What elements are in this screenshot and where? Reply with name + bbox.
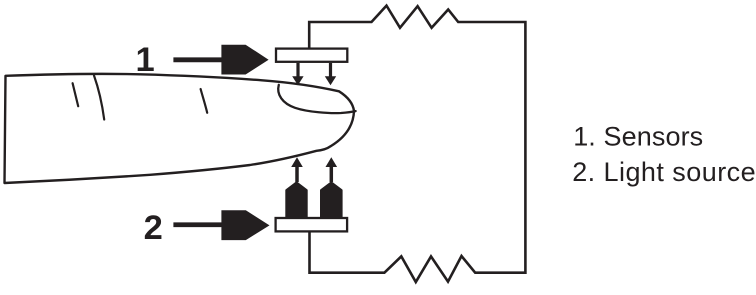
LED right xyxy=(321,182,342,217)
svg-text:2. Light source: 2. Light source xyxy=(572,157,756,187)
sensor down arrow left xyxy=(292,63,303,85)
label 1 arrow xyxy=(173,45,268,75)
sensor down arrow right xyxy=(325,63,336,85)
svg-text:2: 2 xyxy=(144,209,163,247)
fingernail xyxy=(278,85,355,113)
LED up arrow left xyxy=(291,157,303,182)
LED up arrow right xyxy=(326,157,338,182)
finger outline xyxy=(5,74,355,183)
wire: circuit loop with resistor R1 (top) and resistor R2 (bottom) xyxy=(309,6,525,282)
light source bar (2) xyxy=(276,218,348,231)
knuckle crease 2 xyxy=(94,76,104,120)
label 2 arrow xyxy=(173,210,269,240)
knuckle crease 1 xyxy=(73,83,79,106)
svg-text:1. Sensors: 1. Sensors xyxy=(573,122,703,152)
svg-text:1: 1 xyxy=(136,41,155,79)
LED left xyxy=(286,182,306,217)
knuckle crease 3 xyxy=(201,89,208,113)
sensor bar (1) xyxy=(276,49,347,62)
